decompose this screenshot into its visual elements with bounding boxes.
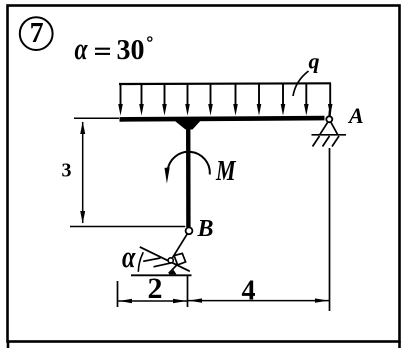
pin circle at A [326, 116, 332, 122]
svg-text:B: B [197, 216, 214, 242]
moment M arc [168, 152, 210, 175]
pin circle at B [186, 227, 193, 234]
svg-text:α: α [75, 31, 89, 66]
foot line of B support [169, 265, 177, 273]
dimension 2 line [118, 300, 188, 302]
gusset joint at beam-column connection [174, 120, 201, 129]
q leader line [293, 71, 309, 96]
dimension 4 left arrowhead [189, 298, 203, 302]
ground baseline of B support [131, 274, 192, 276]
support link rod at B [172, 234, 187, 258]
svg-text:3: 3 [62, 160, 72, 182]
svg-text:M: M [215, 154, 236, 187]
moment M arrowhead [165, 167, 170, 183]
svg-text:4: 4 [242, 275, 256, 306]
dimension 3: bottom extension line [70, 226, 185, 228]
variant number circle 7 [20, 17, 53, 50]
svg-text:7: 7 [30, 18, 44, 49]
ground line at A [312, 134, 347, 136]
inclined surface line of B support [140, 247, 190, 271]
pin circle of B support base [168, 258, 173, 263]
svg-text:q: q [309, 49, 320, 74]
dimension 4 right arrowhead [315, 298, 329, 302]
dimension 3: top arrowhead [80, 122, 85, 135]
bottom dimension left tick [117, 281, 119, 307]
alpha angle arc at B support [138, 252, 143, 271]
svg-text:30: 30 [117, 35, 145, 66]
dimension 2 left arrowhead [119, 299, 133, 303]
svg-text:A: A [347, 103, 364, 128]
hatch strokes at A [313, 136, 340, 147]
distributed load arrows [118, 83, 332, 116]
svg-text:α: α [122, 240, 136, 275]
slider block of B support [174, 253, 186, 265]
hatch stroke 2 of inclined surface [154, 263, 172, 267]
hatch stroke 1 of inclined surface [143, 258, 160, 261]
distributed load q top line [119, 82, 331, 85]
bottom dimension middle tick [187, 276, 189, 307]
foot wedge of B support [169, 270, 177, 275]
column (vertical bar) [186, 120, 191, 227]
dimension 3: bottom arrowhead [80, 211, 85, 224]
svg-text:2: 2 [148, 272, 163, 305]
dimension 2 right arrowhead [173, 299, 187, 303]
dimension 3: vertical dimension line [82, 122, 84, 223]
dimension 3: top extension line [74, 117, 119, 119]
dimension 4 line [188, 300, 330, 302]
support triangle at A [320, 122, 338, 134]
extension line from A down to dimension line [329, 148, 331, 311]
beam (horizontal bar) [120, 118, 325, 119]
